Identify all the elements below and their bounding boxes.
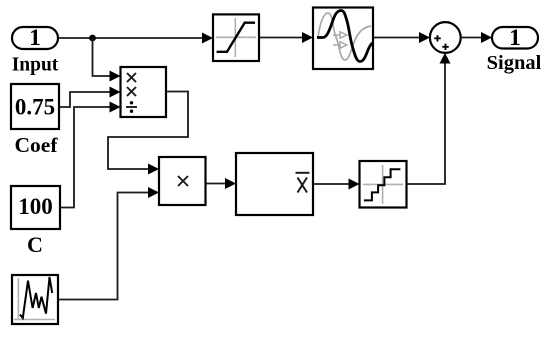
wire saturation output to sine block [259, 37, 302, 39]
arrowhead into mean [225, 178, 236, 189]
multiply-divide block [121, 67, 167, 117]
sum block [430, 22, 461, 53]
sine wave shift block [313, 8, 373, 70]
arrowhead multiply input 2 [110, 87, 121, 98]
wire sum output to Signal port [461, 37, 481, 39]
arrowhead product input 2 [148, 187, 159, 198]
svg-text:Coef: Coef [15, 133, 59, 157]
constant block 100 [11, 186, 60, 229]
arrowhead into sine block [302, 32, 313, 43]
svg-text:Input: Input [12, 54, 59, 75]
arrowhead into sum [419, 32, 430, 43]
arrowhead multiply input 3 [110, 102, 121, 113]
wire C to multiply input 3 [60, 107, 110, 208]
wire junction down to multiply input 1 [93, 38, 111, 76]
arrowhead into quantizer [349, 179, 360, 190]
arrowhead into Signal port [481, 32, 492, 43]
wire main: Input to Saturation [58, 37, 203, 39]
junction node [89, 35, 96, 42]
wire product output to mean [206, 183, 227, 185]
arrowhead multiply input 1 [110, 71, 121, 82]
wire Coef to multiply input 2 [59, 92, 110, 107]
noise source block [12, 275, 58, 324]
mean block [236, 153, 313, 215]
wire mean output to quantizer [313, 183, 349, 185]
arrowhead product input 1 [148, 164, 159, 175]
svg-text:1: 1 [509, 25, 521, 51]
output port Signal (oval 1) [492, 25, 538, 51]
constant block 0.75 [11, 84, 59, 129]
svg-text:100: 100 [18, 194, 53, 219]
quantizer block [360, 161, 407, 208]
svg-text:C: C [27, 232, 43, 257]
svg-text:1: 1 [29, 25, 41, 51]
wire quantizer output up to sum [407, 63, 445, 184]
product block [159, 157, 206, 205]
svg-text:0.75: 0.75 [15, 95, 55, 120]
svg-text:Signal: Signal [487, 52, 542, 74]
wire noise to product input 2 [58, 193, 148, 300]
saturation block [213, 14, 259, 61]
arrowhead up into sum [440, 53, 451, 64]
input port Input (oval 1) [12, 25, 58, 51]
arrowhead into saturation [202, 33, 213, 44]
wire multiply output to product input 1 [108, 92, 188, 170]
wire sine block output to sum [373, 37, 419, 39]
